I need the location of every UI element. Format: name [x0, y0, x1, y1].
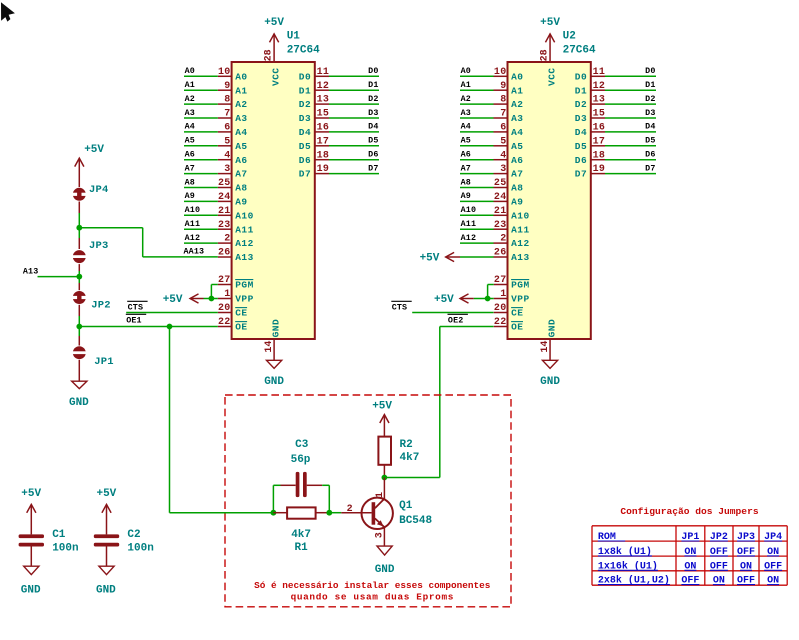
IC U1 27C64 EPROM body — [232, 62, 315, 339]
junction node left of R1 — [271, 510, 277, 516]
svg-text:VCC: VCC — [546, 67, 557, 86]
svg-text:13: 13 — [593, 95, 606, 106]
junction node OE1 on jumper chain — [76, 324, 82, 330]
svg-text:A0: A0 — [185, 66, 195, 76]
U2 pin 20 (CE) — [494, 303, 524, 319]
U1 pin 13 (D2) with wire and net label D2 — [299, 94, 379, 110]
svg-text:Q1: Q1 — [399, 500, 413, 512]
svg-text:OE1: OE1 — [126, 316, 142, 326]
net label A13 with wire to jumper chain — [23, 266, 79, 276]
svg-text:D6: D6 — [645, 150, 655, 160]
Q1 pin 1 collector number — [375, 492, 386, 498]
svg-text:D0: D0 — [368, 66, 378, 76]
U1 pin 11 (D0) with wire and net label D0 — [299, 66, 379, 82]
svg-text:D3: D3 — [645, 108, 655, 118]
svg-text:A8: A8 — [185, 177, 195, 187]
svg-text:+5V: +5V — [540, 17, 560, 29]
svg-text:2: 2 — [347, 504, 353, 515]
svg-text:+5V: +5V — [84, 144, 104, 156]
wire U1 PGM pin 27 to VPP node — [211, 285, 217, 299]
U2 pin 25 (A8) with wire and net label A8 — [460, 177, 524, 193]
svg-text:27C64: 27C64 — [563, 45, 596, 57]
svg-text:Só é necessário instalar esses: Só é necessário instalar esses component… — [254, 580, 491, 591]
svg-text:A6: A6 — [511, 155, 523, 166]
svg-text:A7: A7 — [511, 169, 523, 180]
svg-text:+5V: +5V — [21, 488, 41, 500]
wire junction to JP3 — [78, 228, 80, 249]
svg-text:JP3: JP3 — [89, 240, 109, 252]
svg-text:A10: A10 — [461, 205, 477, 215]
svg-text:19: 19 — [593, 164, 606, 175]
svg-text:D7: D7 — [645, 163, 655, 173]
wire OE2 down to R2/Q1 collector junction — [384, 327, 439, 478]
svg-text:D2: D2 — [575, 99, 587, 110]
U2 pin 23 (A11) with wire and net label A11 — [460, 219, 530, 235]
svg-text:D4: D4 — [368, 122, 378, 132]
U2 pin 6 (A4) with wire and net label A4 — [460, 122, 524, 138]
U2 pin 10 (A0) with wire and net label A0 — [460, 66, 524, 82]
svg-text:quando se usam duas Eproms: quando se usam duas Eproms — [291, 592, 454, 603]
svg-text:D7: D7 — [575, 169, 587, 180]
svg-text:24: 24 — [494, 192, 507, 203]
svg-text:JP4: JP4 — [89, 184, 109, 196]
ground symbol below U1 — [264, 339, 284, 388]
U1 pin 2 (A12) with wire and net label A12 — [184, 233, 254, 249]
svg-text:+5V: +5V — [163, 294, 183, 306]
svg-text:D1: D1 — [299, 85, 311, 96]
wire R1 to Q1 base — [329, 512, 341, 514]
svg-text:OE: OE — [511, 322, 523, 333]
svg-text:4k7: 4k7 — [400, 452, 420, 464]
power +5V symbol above R2 — [372, 400, 392, 436]
svg-text:A12: A12 — [185, 233, 201, 243]
svg-text:JP2: JP2 — [91, 299, 111, 311]
table title: Configuracao dos Jumpers — [620, 506, 758, 517]
power +5V symbol at U2 A13 — [420, 252, 494, 264]
U2 pin 5 (A5) with wire and net label A5 — [460, 136, 524, 152]
power +5V symbol at U1 VPP — [163, 294, 204, 306]
junction node at U1 VPP — [209, 296, 215, 302]
junction node A13 on jumper chain — [76, 274, 82, 280]
svg-text:3: 3 — [500, 164, 506, 175]
svg-text:A6: A6 — [235, 155, 247, 166]
ground symbol below C2 — [96, 547, 116, 597]
svg-text:A1: A1 — [185, 80, 195, 90]
svg-text:19: 19 — [317, 164, 330, 175]
svg-text:A11: A11 — [185, 219, 201, 229]
U2 pin 12 (D1) with wire and net label D1 — [575, 80, 656, 96]
resistor R1 4k7 — [273, 507, 329, 554]
U1 pin 23 (A11) with wire and net label A11 — [184, 219, 254, 235]
table grid for jumper configuration — [592, 526, 787, 585]
svg-text:PGM: PGM — [235, 280, 254, 291]
svg-text:A6: A6 — [461, 150, 471, 160]
svg-text:A1: A1 — [511, 85, 523, 96]
svg-text:4k7: 4k7 — [291, 529, 311, 541]
svg-text:D1: D1 — [645, 80, 655, 90]
svg-text:24: 24 — [218, 192, 231, 203]
capacitor C1 100n — [19, 529, 79, 554]
svg-text:+5V: +5V — [372, 400, 392, 412]
svg-text:7: 7 — [224, 109, 230, 120]
U1 reference and value labels — [287, 31, 320, 57]
svg-text:PGM: PGM — [511, 280, 530, 291]
svg-text:2: 2 — [500, 234, 506, 245]
U2 pin 3 (A7) with wire and net label A7 — [460, 163, 524, 179]
U1 pin 12 (D1) with wire and net label D1 — [299, 80, 379, 96]
wire JP2 to OE1 junction — [78, 305, 80, 327]
power +5V symbol at U2 VCC — [540, 17, 560, 62]
svg-text:A9: A9 — [461, 191, 471, 201]
wire OE1 junction to JP1 — [78, 327, 80, 346]
svg-text:5: 5 — [500, 136, 506, 147]
U1 pin 22 (OE) — [218, 317, 248, 333]
svg-text:A2: A2 — [461, 94, 471, 104]
U1 pin 15 (D3) with wire and net label D3 — [299, 108, 379, 124]
U2 pin 15 (D3) with wire and net label D3 — [575, 108, 656, 124]
svg-text:GND: GND — [547, 319, 558, 338]
U2 pin 17 (D5) with wire and net label D5 — [575, 136, 656, 152]
svg-text:A13: A13 — [235, 252, 254, 263]
svg-text:A9: A9 — [511, 197, 523, 208]
power +5V symbol at U1 VCC — [264, 17, 284, 62]
svg-text:A9: A9 — [235, 197, 247, 208]
U2 pin 11 (D0) with wire and net label D0 — [575, 66, 656, 82]
svg-text:A8: A8 — [461, 177, 471, 187]
svg-text:4: 4 — [500, 150, 506, 161]
svg-text:21: 21 — [494, 206, 507, 217]
svg-text:A10: A10 — [185, 205, 201, 215]
U2 pin 13 (D2) with wire and net label D2 — [575, 94, 656, 110]
svg-text:A3: A3 — [235, 113, 247, 124]
svg-text:5: 5 — [224, 136, 230, 147]
power +5V symbol above C1 — [21, 488, 41, 535]
U2 pin 2 (A12) with wire and net label A12 — [460, 233, 530, 249]
U2 pin 8 (A2) with wire and net label A2 — [460, 94, 524, 110]
svg-text:A7: A7 — [185, 163, 195, 173]
svg-text:D1: D1 — [368, 80, 378, 90]
wire +5V to U2 VPP pin 1 — [474, 298, 494, 300]
Q1 pin 2 base number with wire — [341, 504, 371, 515]
wire U2 PGM pin 27 to VPP node — [488, 285, 494, 299]
svg-text:A12: A12 — [511, 238, 530, 249]
svg-text:VPP: VPP — [235, 294, 254, 305]
U1 pin 16 (D4) with wire and net label D4 — [299, 122, 379, 138]
svg-text:A3: A3 — [185, 108, 195, 118]
U2 pin 27 (PGM) — [494, 275, 530, 291]
svg-text:28: 28 — [539, 49, 550, 61]
svg-text:26: 26 — [494, 248, 507, 259]
svg-text:23: 23 — [218, 220, 231, 231]
svg-text:9: 9 — [500, 81, 506, 92]
svg-text:D0: D0 — [299, 71, 311, 82]
svg-text:D5: D5 — [299, 141, 311, 152]
svg-text:6: 6 — [500, 123, 506, 134]
U2 pin 14 GND — [540, 319, 558, 353]
svg-text:28: 28 — [264, 49, 275, 61]
svg-text:R1: R1 — [294, 542, 308, 554]
svg-text:A0: A0 — [235, 71, 247, 82]
junction node at U2 VPP — [485, 296, 491, 302]
svg-text:100n: 100n — [52, 542, 78, 554]
net label CTS (U2 CE) with wire — [391, 301, 493, 312]
capacitor C2 100n — [94, 529, 154, 554]
svg-text:6: 6 — [224, 123, 230, 134]
U2 pin 4 (A6) with wire and net label A6 — [460, 150, 524, 166]
U2 pin 18 (D6) with wire and net label D6 — [575, 150, 656, 166]
svg-text:AA13: AA13 — [184, 247, 205, 257]
svg-text:D5: D5 — [368, 136, 378, 146]
svg-text:A3: A3 — [511, 113, 523, 124]
svg-text:A4: A4 — [185, 122, 195, 132]
svg-text:GND: GND — [21, 584, 41, 596]
U1 pin 8 (A2) with wire and net label A2 — [184, 94, 248, 110]
svg-text:CTS: CTS — [128, 303, 144, 313]
svg-text:+5V: +5V — [96, 488, 116, 500]
resistor R2 4k7 — [378, 437, 419, 478]
svg-text:+5V: +5V — [420, 253, 440, 265]
svg-text:VCC: VCC — [271, 67, 282, 86]
U2 pin 22 (OE) — [494, 317, 524, 333]
svg-text:21: 21 — [218, 206, 231, 217]
svg-text:22: 22 — [218, 317, 231, 328]
junction node R2 / Q1 collector / OE2 — [382, 475, 388, 481]
jumper JP3 — [72, 240, 109, 263]
svg-text:D6: D6 — [575, 155, 587, 166]
U1 pin 1 (VPP) — [218, 289, 254, 305]
svg-text:A2: A2 — [185, 94, 195, 104]
svg-text:A1: A1 — [461, 80, 471, 90]
svg-text:D3: D3 — [299, 113, 311, 124]
U1 pin 6 (A4) with wire and net label A4 — [184, 122, 248, 138]
U2 pin 28 VCC — [539, 49, 557, 86]
svg-text:U2: U2 — [563, 31, 576, 43]
ground symbol below U2 — [540, 339, 560, 388]
svg-text:OE2: OE2 — [448, 316, 464, 326]
svg-text:D5: D5 — [575, 141, 587, 152]
svg-text:A4: A4 — [235, 127, 247, 138]
svg-text:D3: D3 — [575, 113, 587, 124]
svg-text:A5: A5 — [185, 136, 195, 146]
svg-text:3: 3 — [224, 164, 230, 175]
svg-text:15: 15 — [593, 109, 606, 120]
svg-text:GND: GND — [375, 564, 395, 576]
svg-text:26: 26 — [218, 248, 231, 259]
power +5V symbol at top of jumper chain — [75, 144, 105, 187]
power +5V symbol at U2 VPP — [434, 294, 474, 306]
svg-text:+5V: +5V — [264, 17, 284, 29]
svg-text:18: 18 — [593, 150, 606, 161]
svg-text:18: 18 — [317, 150, 330, 161]
svg-text:12: 12 — [593, 81, 606, 92]
svg-text:VPP: VPP — [511, 294, 530, 305]
wire JP4 to junction — [78, 202, 80, 228]
svg-text:A7: A7 — [461, 163, 471, 173]
svg-text:17: 17 — [317, 136, 330, 147]
svg-text:GND: GND — [264, 376, 284, 388]
svg-text:A5: A5 — [461, 136, 471, 146]
svg-text:A4: A4 — [461, 122, 471, 132]
svg-text:17: 17 — [593, 136, 606, 147]
U1 pin 28 VCC — [264, 49, 282, 86]
table row: 2x8k (U1,U2) — [598, 575, 779, 587]
svg-text:A5: A5 — [235, 141, 247, 152]
svg-text:9: 9 — [224, 81, 230, 92]
svg-text:BC548: BC548 — [399, 515, 432, 527]
U1 pin 5 (A5) with wire and net label A5 — [184, 136, 248, 152]
jumper JP2 — [72, 291, 111, 311]
net label OE2 (U2 OE) with wire — [440, 314, 494, 326]
svg-text:A0: A0 — [511, 71, 523, 82]
wire OE1 net down and across to R1/C3 — [170, 327, 274, 513]
svg-text:GND: GND — [271, 319, 282, 338]
svg-text:D2: D2 — [368, 94, 378, 104]
wire JP3 to A13 junction — [78, 264, 80, 277]
U2 pin 1 (VPP) — [494, 289, 530, 305]
svg-text:A11: A11 — [511, 224, 530, 235]
svg-text:27: 27 — [494, 275, 507, 286]
svg-text:22: 22 — [494, 317, 507, 328]
net label OE1 (U1 OE) with wire from jumper chain — [79, 314, 218, 326]
U1 pin 9 (A1) with wire and net label A1 — [184, 80, 248, 96]
svg-text:A6: A6 — [185, 150, 195, 160]
svg-text:A11: A11 — [461, 219, 477, 229]
U1 pin 10 (A0) with wire and net label A0 — [184, 66, 248, 82]
svg-text:23: 23 — [494, 220, 507, 231]
svg-text:A4: A4 — [511, 127, 523, 138]
svg-text:13: 13 — [317, 95, 330, 106]
svg-text:+5V: +5V — [434, 294, 454, 306]
svg-text:D0: D0 — [645, 66, 655, 76]
table row: 1x8k (U1) — [598, 546, 779, 558]
svg-text:D7: D7 — [368, 163, 378, 173]
power +5V symbol above C2 — [96, 488, 116, 535]
svg-text:D2: D2 — [645, 94, 655, 104]
U2 pin 7 (A3) with wire and net label A3 — [460, 108, 524, 124]
svg-text:7: 7 — [500, 109, 506, 120]
junction node OE1 to transistor network — [167, 324, 173, 330]
svg-text:25: 25 — [494, 178, 507, 189]
svg-text:A8: A8 — [235, 183, 247, 194]
U1 pin 21 (A10) with wire and net label A10 — [184, 205, 254, 221]
svg-text:15: 15 — [317, 109, 330, 120]
svg-text:A12: A12 — [461, 233, 477, 243]
svg-text:A10: A10 — [511, 210, 530, 221]
svg-text:D4: D4 — [645, 122, 655, 132]
svg-text:1: 1 — [224, 289, 230, 300]
svg-text:D3: D3 — [368, 108, 378, 118]
ground symbol below Q1 — [375, 546, 395, 576]
wire A13 junction to JP2 — [78, 277, 80, 291]
U1 pin 18 (D6) with wire and net label D6 — [299, 150, 379, 166]
junction node jumper chain to U2/AA13 wire — [76, 225, 82, 231]
svg-text:A3: A3 — [461, 108, 471, 118]
svg-text:10: 10 — [218, 67, 231, 78]
mouse cursor pointer — [1, 2, 15, 21]
svg-text:27: 27 — [218, 275, 231, 286]
svg-text:C2: C2 — [127, 529, 140, 541]
svg-text:A0: A0 — [461, 66, 471, 76]
svg-text:Configuração dos Jumpers: Configuração dos Jumpers — [620, 506, 758, 517]
svg-text:GND: GND — [540, 376, 560, 388]
svg-text:A8: A8 — [511, 183, 523, 194]
svg-text:CTS: CTS — [392, 303, 408, 313]
svg-text:4: 4 — [224, 150, 230, 161]
U2 reference and value labels — [563, 31, 596, 57]
U1 pin 24 (A9) with wire and net label A9 — [184, 191, 248, 207]
svg-text:11: 11 — [317, 67, 330, 78]
U1 pin 27 (PGM) — [218, 275, 254, 291]
Q1 pin 3 emitter number — [374, 532, 385, 538]
U1 pin 17 (D5) with wire and net label D5 — [299, 136, 379, 152]
svg-text:1: 1 — [375, 492, 386, 498]
svg-text:D6: D6 — [368, 150, 378, 160]
svg-text:1: 1 — [500, 289, 506, 300]
net label CTS (U1 CE) with wire — [126, 301, 218, 312]
svg-text:A10: A10 — [235, 210, 254, 221]
svg-text:GND: GND — [96, 584, 116, 596]
U1 pin 25 (A8) with wire and net label A8 — [184, 177, 248, 193]
jumper JP1 — [72, 346, 114, 368]
svg-text:A12: A12 — [235, 238, 254, 249]
svg-text:D7: D7 — [299, 169, 311, 180]
svg-text:27C64: 27C64 — [287, 45, 320, 57]
U1 pin 3 (A7) with wire and net label A7 — [184, 163, 248, 179]
capacitor C3 56p with wires — [273, 439, 329, 513]
svg-text:CE: CE — [235, 308, 247, 319]
U2 pin 21 (A10) with wire and net label A10 — [460, 205, 530, 221]
U1 pin 14 GND — [264, 319, 282, 353]
ground symbol below C1 — [21, 547, 41, 597]
U2 pin 24 (A9) with wire and net label A9 — [460, 191, 524, 207]
ground symbol at bottom of jumper chain — [69, 381, 89, 409]
junction node right of R1 — [326, 510, 332, 516]
note text inside dashed box — [254, 580, 491, 603]
IC U2 27C64 EPROM body — [508, 62, 591, 339]
svg-text:16: 16 — [317, 123, 330, 134]
svg-text:OE: OE — [235, 322, 247, 333]
U2 pin 19 (D7) with wire and net label D7 — [575, 163, 656, 179]
U1 pin 20 (CE) — [218, 303, 248, 319]
U2 pin 16 (D4) with wire and net label D4 — [575, 122, 656, 138]
wire junction to U1 pin A13 (net AA13) — [79, 228, 218, 257]
U1 pin 26 (A13) with net label AA13 — [184, 247, 254, 264]
svg-text:U1: U1 — [287, 31, 301, 43]
svg-text:16: 16 — [593, 123, 606, 134]
svg-text:10: 10 — [494, 67, 507, 78]
svg-text:D4: D4 — [575, 127, 587, 138]
svg-text:A5: A5 — [511, 141, 523, 152]
svg-text:JP1: JP1 — [94, 356, 114, 368]
U1 pin 7 (A3) with wire and net label A3 — [184, 108, 248, 124]
wire JP1 to ground — [78, 360, 80, 381]
table row: ROM — [598, 532, 782, 543]
svg-text:2: 2 — [224, 234, 230, 245]
svg-text:20: 20 — [494, 303, 507, 314]
U2 pin 9 (A1) with wire and net label A1 — [460, 80, 524, 96]
svg-text:R2: R2 — [400, 439, 413, 451]
svg-text:A9: A9 — [185, 191, 195, 201]
svg-text:D5: D5 — [645, 136, 655, 146]
svg-text:D0: D0 — [575, 71, 587, 82]
svg-text:20: 20 — [218, 303, 231, 314]
svg-text:11: 11 — [593, 67, 606, 78]
U2 pin 26 (A13) tied to +5V — [494, 248, 530, 264]
U1 pin 19 (D7) with wire and net label D7 — [299, 163, 379, 179]
svg-text:A1: A1 — [235, 85, 247, 96]
svg-text:C3: C3 — [295, 439, 309, 451]
svg-text:CE: CE — [511, 308, 523, 319]
